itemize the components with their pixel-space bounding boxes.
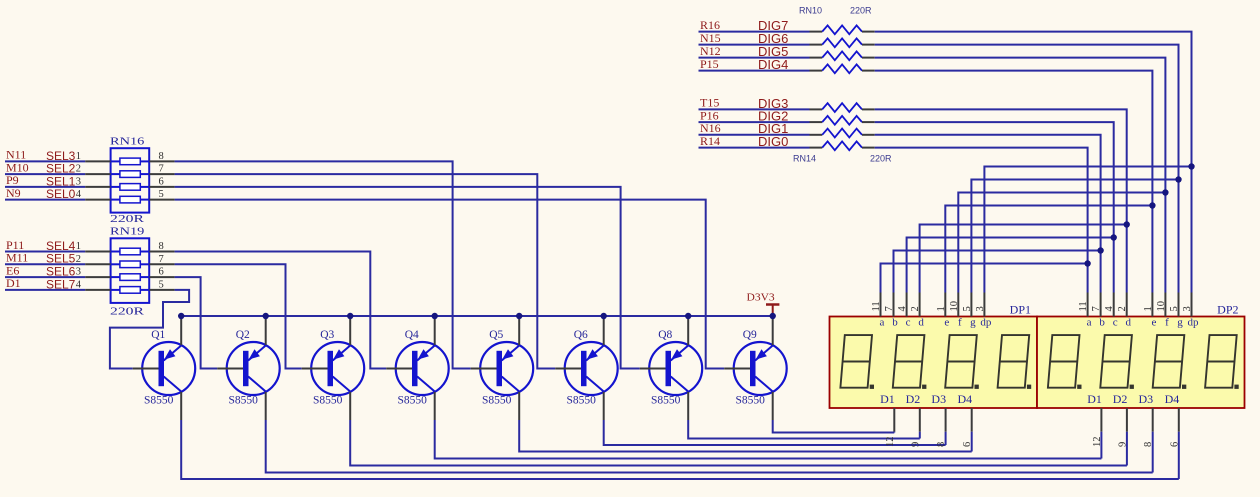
resistor element RN19.3 <box>120 274 140 281</box>
DP2 bottom pin 6 <box>1178 408 1180 432</box>
svg-text:S8550: S8550 <box>228 395 258 407</box>
transistor Q8 <box>649 342 702 395</box>
Q9 base pin <box>724 368 750 370</box>
DP1 digit 4 seven-segment glyph <box>998 335 1032 389</box>
wire DP2 D1 pin to collector line <box>1100 432 1102 459</box>
svg-text:S8550: S8550 <box>566 395 596 407</box>
wire DIG7 <box>699 31 810 33</box>
resistor pin right row 4 <box>862 70 875 72</box>
DP2 bottom pin 9 <box>1126 408 1128 432</box>
svg-text:e: e <box>944 317 949 329</box>
DP1 digit 3 seven-segment glyph <box>945 335 979 389</box>
DP1 top pin 5 <box>970 293 972 317</box>
junction node c <box>1111 234 1117 240</box>
svg-text:g: g <box>1177 317 1183 329</box>
svg-text:3: 3 <box>76 176 81 187</box>
svg-text:9: 9 <box>910 442 921 447</box>
svg-text:b: b <box>1099 317 1105 329</box>
RN16 pin 8 <box>149 160 174 162</box>
Q4 emitter pin <box>434 317 436 345</box>
wire RN16 pin 6 to Q8 base <box>175 187 640 369</box>
svg-text:1: 1 <box>76 241 81 252</box>
wire segment f branch to DP1 <box>958 193 1165 293</box>
svg-text:4: 4 <box>76 189 82 200</box>
wire DP1 D2 pin to collector line <box>919 432 921 439</box>
RN16 pin 1 <box>85 160 110 162</box>
svg-text:7: 7 <box>159 254 164 265</box>
wire DIG0 to display column <box>875 148 1088 293</box>
svg-text:P15: P15 <box>700 57 719 71</box>
svg-text:2: 2 <box>76 254 81 265</box>
resistor pin right row 6 <box>862 121 875 123</box>
svg-text:1: 1 <box>76 151 81 162</box>
transistor Q4 <box>396 342 449 395</box>
svg-text:Q9: Q9 <box>743 329 757 341</box>
svg-text:dp: dp <box>1188 317 1200 329</box>
svg-text:D4: D4 <box>958 392 973 406</box>
wire SEL1 to RN16 <box>5 186 85 188</box>
svg-text:S8550: S8550 <box>651 395 681 407</box>
junction Q1 emitter on rail <box>178 313 184 319</box>
resistor pin left row 2 <box>810 44 823 46</box>
wire DP2 D2 pin to collector line <box>1126 432 1128 466</box>
DP2 digit 1 seven-segment glyph <box>1048 335 1082 389</box>
svg-text:S8550: S8550 <box>397 395 427 407</box>
wire DIG1 <box>699 134 810 136</box>
DP2 digit 4 seven-segment glyph <box>1205 335 1239 389</box>
resistor pin right row 1 <box>862 31 875 33</box>
DP1 bottom pin 6 <box>971 408 973 432</box>
resistor element RN16.4 <box>120 196 140 203</box>
DP1 top pin 3 <box>983 293 985 317</box>
svg-text:1: 1 <box>1143 306 1154 311</box>
resistor network RN16 <box>111 148 150 212</box>
svg-text:1: 1 <box>936 306 947 311</box>
wire inside RN16 row 2 <box>111 173 120 175</box>
wire DIG3 to display column <box>875 109 1127 292</box>
Q1 collector pin <box>180 392 182 420</box>
svg-text:Q4: Q4 <box>405 329 419 341</box>
svg-text:5: 5 <box>159 189 164 200</box>
wire DIG1 to display column <box>875 135 1101 293</box>
wire DIG4 <box>699 70 810 72</box>
svg-text:Q8: Q8 <box>658 329 672 341</box>
Q5 collector pin <box>518 392 520 420</box>
svg-text:5: 5 <box>159 279 164 290</box>
svg-text:3: 3 <box>76 267 81 278</box>
resistor element RN16.3 <box>120 184 140 191</box>
junction node a <box>1084 260 1090 266</box>
RN19 pin 1 <box>85 251 110 253</box>
RN19 pin 6 <box>149 276 174 278</box>
DP1 digit 1 seven-segment glyph <box>840 335 874 389</box>
wire inside RN19 row 3 <box>111 276 120 278</box>
RN16 pin 3 <box>85 186 110 188</box>
wire DP2 D3 pin to collector line <box>1152 432 1154 473</box>
svg-text:7: 7 <box>1091 306 1102 311</box>
wire Q1 collector to display <box>181 420 1179 479</box>
svg-text:4: 4 <box>76 279 82 290</box>
wire Q4 collector to display <box>435 420 1102 459</box>
resistor pin left row 4 <box>810 70 823 72</box>
resistor element row 3 <box>822 51 862 60</box>
svg-text:220R: 220R <box>850 6 872 16</box>
wire Q9 collector to display <box>773 420 895 433</box>
svg-text:R14: R14 <box>700 134 720 148</box>
display DP1 <box>830 317 1038 409</box>
svg-text:10: 10 <box>1156 301 1167 312</box>
DP1 top pin 1 <box>944 293 946 317</box>
wire DIG0 <box>699 147 810 149</box>
svg-text:S8550: S8550 <box>144 395 174 407</box>
Q8 base pin <box>640 368 666 370</box>
RN19 pin 7 <box>149 263 174 265</box>
Q5 base pin <box>471 368 497 370</box>
resistor pin left row 6 <box>810 121 823 123</box>
junction node b <box>1097 247 1103 253</box>
resistor element row 6 <box>822 116 862 125</box>
RN19 pin 8 <box>149 251 174 253</box>
wire SEL2 to RN16 <box>5 173 85 175</box>
svg-text:S8550: S8550 <box>313 395 343 407</box>
Q4 base pin <box>386 368 412 370</box>
svg-text:f: f <box>958 317 962 329</box>
svg-text:Q2: Q2 <box>236 329 250 341</box>
svg-text:dp: dp <box>980 317 992 329</box>
svg-text:7: 7 <box>159 164 164 175</box>
svg-text:Q6: Q6 <box>574 329 588 341</box>
junction Q9 emitter on rail <box>770 313 776 319</box>
power symbol D3V3 <box>766 305 779 317</box>
wire inside RN16 row 4 <box>111 199 120 201</box>
resistor element RN19.2 <box>120 261 140 268</box>
svg-text:D1: D1 <box>880 392 895 406</box>
wire RN19 pin 7 to Q3 base <box>175 264 302 368</box>
svg-text:2: 2 <box>1117 306 1128 311</box>
DP1 bottom pin 12 <box>893 408 895 432</box>
svg-text:Q1: Q1 <box>151 329 165 341</box>
DP2 top pin 10 <box>1164 293 1166 317</box>
junction Q4 emitter on rail <box>432 313 438 319</box>
wire inside RN16 row 1 <box>111 160 120 162</box>
DP1 top pin 10 <box>957 293 959 317</box>
resistor element RN16.2 <box>120 171 140 178</box>
svg-text:D3: D3 <box>931 392 946 406</box>
wire DIG5 <box>699 57 810 59</box>
svg-text:D3: D3 <box>1139 392 1154 406</box>
DP1 top pin 11 <box>880 293 882 317</box>
wire segment d branch to DP1 <box>920 225 1127 293</box>
junction node dp <box>1188 163 1194 169</box>
wire DIG5 to display column <box>875 58 1166 293</box>
wire segment b branch to DP1 <box>894 251 1101 293</box>
resistor element RN19.4 <box>120 287 140 294</box>
DP2 digit 2 seven-segment glyph <box>1100 335 1134 389</box>
wire SEL0 to RN16 <box>5 199 85 201</box>
wire DIG7 to display column <box>875 32 1192 293</box>
resistor element row 1 <box>822 25 862 34</box>
resistor pin left row 1 <box>810 31 823 33</box>
resistor pin right row 3 <box>862 57 875 59</box>
wire segment a branch to DP1 <box>881 264 1088 293</box>
svg-text:220R: 220R <box>110 306 145 318</box>
svg-text:3: 3 <box>1182 306 1193 311</box>
resistor pin right row 5 <box>862 108 875 110</box>
wire DIG2 <box>699 121 810 123</box>
DP2 top pin 7 <box>1100 293 1102 317</box>
Q5 emitter pin <box>518 317 520 345</box>
svg-text:4: 4 <box>1104 306 1115 312</box>
Q9 collector pin <box>772 392 774 420</box>
svg-text:N15: N15 <box>700 31 721 45</box>
wire DP1 D4 pin to collector line <box>971 432 973 452</box>
svg-text:g: g <box>970 317 976 329</box>
wire segment c branch to DP1 <box>907 238 1114 293</box>
Q2 base pin <box>217 368 243 370</box>
DP2 digit 3 seven-segment glyph <box>1153 335 1187 389</box>
wire DIG2 to display column <box>875 122 1114 292</box>
wire DP1 D3 pin to collector line <box>945 432 947 445</box>
Q4 collector pin <box>434 392 436 420</box>
svg-text:d: d <box>918 317 924 329</box>
wire DIG6 to display column <box>875 45 1179 293</box>
wire RN19 pin 6 to Q2 base <box>175 277 218 368</box>
transistor Q9 <box>734 342 787 395</box>
DP2 bottom pin 8 <box>1152 408 1154 432</box>
Q6 emitter pin <box>603 317 605 345</box>
transistor Q5 <box>480 342 533 395</box>
Q1 emitter pin <box>180 317 182 345</box>
wire inside RN19 row 1 <box>111 251 120 253</box>
svg-text:6: 6 <box>159 176 164 187</box>
RN16 pin 7 <box>149 173 174 175</box>
RN19 pin 3 <box>85 276 110 278</box>
transistor Q6 <box>565 342 618 395</box>
svg-text:11: 11 <box>871 301 882 311</box>
wire inside RN16 row 3 <box>111 186 120 188</box>
resistor network RN19 <box>111 238 150 303</box>
Q8 collector pin <box>687 392 689 420</box>
DP1 bottom pin 8 <box>945 408 947 432</box>
svg-text:RN10: RN10 <box>799 6 822 16</box>
DP1 top pin 2 <box>919 293 921 317</box>
wire SEL3 to RN16 <box>5 160 85 162</box>
svg-text:a: a <box>880 317 885 329</box>
svg-text:11: 11 <box>1078 301 1089 311</box>
svg-text:5: 5 <box>1169 306 1180 311</box>
wire segment e branch to DP1 <box>945 206 1152 293</box>
junction Q3 emitter on rail <box>347 313 353 319</box>
RN16 pin 2 <box>85 173 110 175</box>
svg-text:RN19: RN19 <box>110 226 145 238</box>
DP2 bottom pin 12 <box>1100 408 1102 432</box>
svg-text:D3V3: D3V3 <box>747 293 775 304</box>
Q8 emitter pin <box>687 317 689 345</box>
RN19 pin 5 <box>149 289 174 291</box>
svg-text:DP2: DP2 <box>1217 303 1238 317</box>
wire inside RN19 row 4 <box>111 289 120 291</box>
transistor Q1 <box>142 342 195 395</box>
Q6 collector pin <box>603 392 605 420</box>
DP2 top pin 1 <box>1151 293 1153 317</box>
DP1 top pin 7 <box>893 293 895 317</box>
wire Q6 collector to display <box>604 420 946 445</box>
RN16 pin 6 <box>149 186 174 188</box>
resistor element row 7 <box>822 129 862 138</box>
RN19 pin 4 <box>85 289 110 291</box>
svg-text:2: 2 <box>76 164 81 175</box>
resistor pin left row 5 <box>810 108 823 110</box>
display DP2 <box>1037 317 1245 409</box>
junction node g <box>1175 176 1181 182</box>
resistor element RN19.1 <box>120 248 140 255</box>
Q3 collector pin <box>349 392 351 420</box>
junction Q2 emitter on rail <box>263 313 269 319</box>
svg-text:f: f <box>1165 317 1169 329</box>
svg-text:D1: D1 <box>1087 392 1102 406</box>
Q1 base pin <box>133 368 159 370</box>
junction node f <box>1162 189 1168 195</box>
svg-text:d: d <box>1125 317 1131 329</box>
wire RN19 pin 5 to Q1 base <box>110 290 189 369</box>
svg-text:N12: N12 <box>700 44 721 58</box>
junction Q6 emitter on rail <box>601 313 607 319</box>
svg-text:c: c <box>1113 317 1118 329</box>
resistor pin right row 7 <box>862 134 875 136</box>
Q2 emitter pin <box>265 317 267 345</box>
resistor element row 5 <box>822 103 862 112</box>
svg-text:7: 7 <box>884 306 895 311</box>
DP1 bottom pin 9 <box>919 408 921 432</box>
wire SEL6 to RN19 <box>5 276 85 278</box>
svg-text:RN14: RN14 <box>793 154 816 164</box>
svg-text:e: e <box>1151 317 1156 329</box>
resistor pin right row 8 <box>862 147 875 149</box>
Q2 collector pin <box>265 392 267 420</box>
svg-text:220R: 220R <box>870 154 892 164</box>
svg-text:4: 4 <box>897 306 908 312</box>
resistor pin left row 8 <box>810 147 823 149</box>
wire RN19 pin 8 to Q4 base <box>175 252 387 369</box>
DP1 digit 2 seven-segment glyph <box>893 335 927 389</box>
svg-text:S8550: S8550 <box>735 395 765 407</box>
wire segment g branch to DP1 <box>971 180 1178 293</box>
junction Q8 emitter on rail <box>685 313 691 319</box>
svg-text:D2: D2 <box>1113 392 1128 406</box>
wire Q2 collector to display <box>266 420 1153 473</box>
Q3 base pin <box>302 368 328 370</box>
wire RN16 pin 5 to Q9 base <box>175 200 725 369</box>
svg-text:5: 5 <box>962 306 973 311</box>
svg-text:Q3: Q3 <box>320 329 334 341</box>
wire segment dp branch to DP1 <box>984 167 1191 293</box>
resistor pin left row 3 <box>810 57 823 59</box>
wire RN16 pin 8 to Q5 base <box>175 161 471 368</box>
Q3 emitter pin <box>349 317 351 345</box>
DP2 top pin 3 <box>1191 293 1193 317</box>
svg-text:D2: D2 <box>906 392 921 406</box>
transistor Q3 <box>311 342 364 395</box>
wire Q8 collector to display <box>688 420 920 439</box>
wire DIG6 <box>699 44 810 46</box>
wire DP2 D4 pin to collector line <box>1178 432 1180 479</box>
resistor pin right row 2 <box>862 44 875 46</box>
junction node e <box>1149 202 1155 208</box>
transistor Q2 <box>227 342 280 395</box>
svg-text:N9: N9 <box>6 186 21 200</box>
RN16 pin 5 <box>149 199 174 201</box>
svg-text:c: c <box>906 317 911 329</box>
DP1 top pin 4 <box>906 293 908 317</box>
svg-text:DP1: DP1 <box>1010 303 1031 317</box>
svg-text:a: a <box>1087 317 1092 329</box>
wire SEL5 to RN19 <box>5 263 85 265</box>
resistor element row 8 <box>822 141 862 150</box>
wire DP1 D1 pin to collector line <box>893 431 895 434</box>
resistor pin left row 7 <box>810 134 823 136</box>
svg-text:8: 8 <box>159 241 164 252</box>
RN16 pin 4 <box>85 199 110 201</box>
svg-text:10: 10 <box>949 301 960 312</box>
DP2 top pin 11 <box>1087 293 1089 317</box>
svg-text:Q5: Q5 <box>489 329 503 341</box>
wire DIG3 <box>699 108 810 110</box>
wire Q5 collector to display <box>519 420 972 452</box>
emitter rail (D3V3) <box>181 315 773 317</box>
svg-text:8: 8 <box>159 151 164 162</box>
svg-text:6: 6 <box>159 267 164 278</box>
wire SEL4 to RN19 <box>5 251 85 253</box>
svg-text:3: 3 <box>975 306 986 311</box>
resistor element RN16.1 <box>120 158 140 165</box>
svg-text:2: 2 <box>910 306 921 311</box>
RN19 pin 2 <box>85 263 110 265</box>
resistor element row 4 <box>822 64 862 73</box>
DP2 top pin 5 <box>1178 293 1180 317</box>
DP2 top pin 4 <box>1113 293 1115 317</box>
resistor element row 2 <box>822 38 862 47</box>
svg-text:D4: D4 <box>1165 392 1180 406</box>
wire inside RN19 row 2 <box>111 263 120 265</box>
junction node d <box>1124 221 1130 227</box>
svg-text:220R: 220R <box>110 213 145 225</box>
svg-text:R16: R16 <box>700 18 720 32</box>
Q9 emitter pin <box>772 317 774 345</box>
svg-text:b: b <box>892 317 898 329</box>
Q6 base pin <box>555 368 581 370</box>
wire Q3 collector to display <box>350 420 1127 466</box>
wire DIG4 to display column <box>875 71 1153 293</box>
wire RN16 pin 7 to Q6 base <box>175 174 556 368</box>
svg-text:S8550: S8550 <box>482 395 512 407</box>
wire SEL7 to RN19 <box>5 289 85 291</box>
svg-text:12: 12 <box>885 437 896 448</box>
DP2 top pin 2 <box>1126 293 1128 317</box>
svg-text:RN16: RN16 <box>110 135 145 147</box>
junction Q5 emitter on rail <box>516 313 522 319</box>
svg-text:D1: D1 <box>6 276 21 290</box>
